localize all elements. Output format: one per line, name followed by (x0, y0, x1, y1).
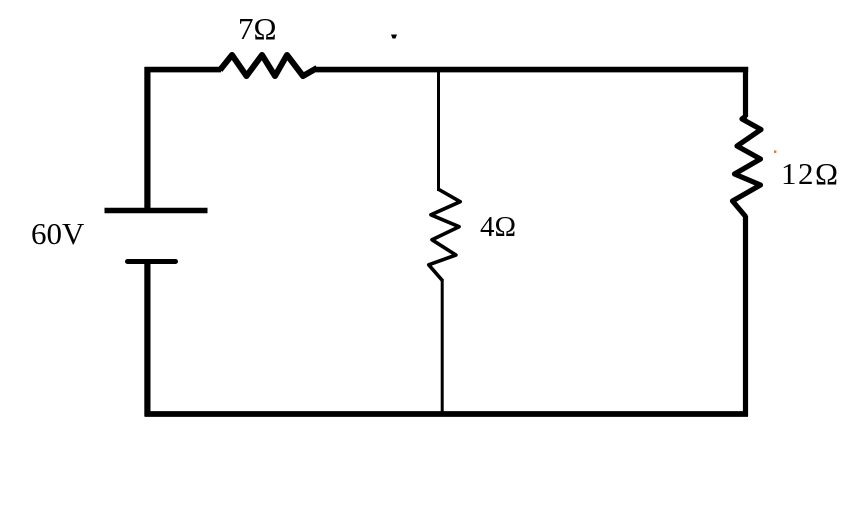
battery V1 positive plate (long) (105, 208, 208, 214)
battery V1 negative plate (short) (128, 259, 176, 264)
wire left lower (battery - to bottom) (144, 264, 150, 417)
wire top-right segment (316, 67, 748, 73)
wire middle lower (R2 to bottom wire) (441, 280, 444, 414)
wire right lower (R3 to bottom corner) (743, 216, 748, 416)
stray orange speck artifact (774, 151, 776, 153)
resistor R1 7Ω zigzag (220, 55, 317, 76)
wire bottom (145, 411, 749, 417)
wire top-left segment (145, 67, 221, 73)
label V1 value 60V (31, 216, 84, 252)
wire left upper (node A to battery +) (144, 67, 150, 208)
label R2 value 4Ω (480, 211, 516, 244)
wire right upper (node B to R3) (743, 67, 748, 117)
label R3 value 12Ω (781, 156, 840, 192)
wire middle upper (node B down to R2) (437, 67, 440, 191)
resistor R3 12Ω zigzag (733, 116, 762, 217)
stray mark near node B (391, 35, 397, 39)
resistor R2 4Ω zigzag (429, 189, 461, 281)
label R1 value 7Ω (238, 11, 277, 47)
